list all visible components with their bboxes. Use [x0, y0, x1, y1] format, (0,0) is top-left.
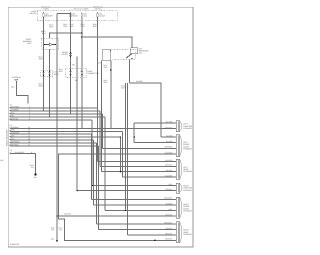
svg-text:15: 15 — [28, 138, 30, 141]
svg-text:YEL: YEL — [11, 114, 15, 117]
svg-text:BLK/YEL: BLK/YEL — [64, 213, 71, 216]
svg-text:2: 2 — [29, 109, 30, 112]
svg-text:FILTER: FILTER — [62, 53, 69, 56]
svg-text:SPEAKER: SPEAKER — [183, 127, 192, 130]
svg-text:G02: G02 — [51, 238, 54, 241]
svg-text:BLOCK: BLOCK — [30, 12, 37, 15]
svg-text:SW: SW — [139, 51, 142, 54]
svg-text:G01: G01 — [34, 176, 37, 179]
svg-text:TIMES: TIMES — [43, 8, 49, 11]
svg-text:4: 4 — [29, 114, 30, 117]
svg-text:GRY/RED: GRY/RED — [11, 106, 20, 109]
svg-text:8: 8 — [31, 151, 32, 154]
svg-text:HOT AT ALL TIMES: HOT AT ALL TIMES — [74, 8, 90, 11]
svg-text:YEL: YEL — [31, 166, 34, 169]
svg-text:C3: C3 — [10, 149, 12, 152]
svg-text:SPEAKER: SPEAKER — [183, 170, 192, 173]
svg-text:12: 12 — [28, 129, 30, 132]
svg-text:CONNECTOR: CONNECTOR — [87, 72, 99, 75]
svg-text:RADIO: RADIO — [72, 15, 78, 18]
svg-text:97B08705: 97B08705 — [10, 243, 20, 246]
svg-text:WHT: WHT — [121, 86, 125, 89]
svg-text:YEL: YEL — [59, 228, 62, 231]
svg-text:BLU/RED: BLU/RED — [11, 109, 20, 112]
svg-text:GRN/BLK: GRN/BLK — [11, 126, 20, 129]
svg-text:WHT/BLU: WHT/BLU — [11, 143, 20, 146]
svg-text:17: 17 — [28, 143, 30, 146]
svg-text:ALARM: ALARM — [136, 80, 143, 83]
svg-text:OR RUN: OR RUN — [95, 8, 102, 11]
svg-text:1: 1 — [29, 106, 30, 109]
svg-text:SPEAKER: SPEAKER — [183, 233, 192, 236]
svg-text:11: 11 — [28, 126, 30, 129]
svg-text:SPEAKER: SPEAKER — [183, 147, 192, 150]
svg-text:13: 13 — [28, 132, 30, 135]
svg-text:MEMORY: MEMORY — [45, 15, 54, 18]
svg-text:16: 16 — [28, 140, 30, 143]
svg-text:BLK/YEL: BLK/YEL — [11, 117, 18, 120]
svg-text:GRN/WHT: GRN/WHT — [11, 132, 21, 135]
svg-text:ANTENNA: ANTENNA — [12, 76, 21, 79]
svg-text:YEL: YEL — [75, 79, 78, 82]
svg-text:RADIO RECEIVER: RADIO RECEIVER — [5, 129, 8, 146]
svg-text:BLACK/YEL: BLACK/YEL — [15, 151, 24, 154]
svg-text:3: 3 — [29, 111, 30, 114]
svg-text:M27: M27 — [0, 159, 4, 162]
svg-text:5: 5 — [29, 117, 30, 120]
svg-text:CIGAR: CIGAR — [99, 15, 105, 18]
svg-text:GRY/RED: GRY/RED — [165, 127, 173, 130]
svg-text:14: 14 — [28, 135, 30, 138]
svg-text:JOINT: JOINT — [54, 73, 60, 76]
svg-text:YEL: YEL — [72, 64, 75, 67]
svg-text:GRN: GRN — [11, 129, 16, 132]
svg-text:WHT/RED: WHT/RED — [11, 140, 20, 143]
svg-text:YEL: YEL — [51, 228, 54, 231]
svg-text:SPEAKER: SPEAKER — [183, 189, 192, 192]
svg-text:SPEAKER: SPEAKER — [183, 209, 192, 212]
